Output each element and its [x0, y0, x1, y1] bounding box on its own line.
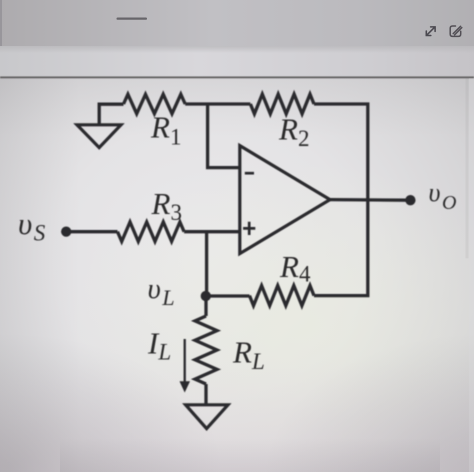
- op-amp U1: [240, 146, 330, 254]
- resistor R2: [250, 94, 314, 114]
- wire op-amp output to vo terminal: [330, 198, 410, 202]
- resistor R3: [118, 222, 185, 241]
- resistor R1: [124, 94, 186, 113]
- ground G1 (top-left): [77, 125, 121, 148]
- wire R3 to non-inverting input: [184, 230, 240, 233]
- node vL junction dot: [201, 291, 211, 301]
- current arrow IL: [180, 339, 191, 393]
- resistor R4: [250, 286, 315, 306]
- node vo terminal dot: [405, 195, 415, 205]
- wire RL to ground G2: [204, 384, 207, 405]
- wire feedback loop right side (R2 out, down, to R4 out): [314, 104, 368, 296]
- wire node vL column: [205, 232, 208, 296]
- edit icon: [450, 26, 462, 36]
- wire R1 to R2: [185, 102, 250, 105]
- wire vs terminal to R3: [66, 230, 118, 233]
- sheet drag handle: [117, 18, 148, 20]
- wire vL node to RL: [204, 296, 207, 316]
- resistor RL: [195, 316, 217, 384]
- wire vL node to R4: [206, 294, 250, 297]
- op-amp plus sign: [243, 222, 255, 235]
- wire ground G1 to R1: [99, 104, 123, 125]
- ground G2 (bottom): [186, 405, 228, 429]
- op-amp minus sign: [245, 172, 254, 175]
- expand icon: [426, 27, 435, 36]
- node vs terminal dot: [61, 226, 71, 236]
- wire node A down to inverting input: [208, 104, 240, 168]
- separator line: [0, 76, 474, 78]
